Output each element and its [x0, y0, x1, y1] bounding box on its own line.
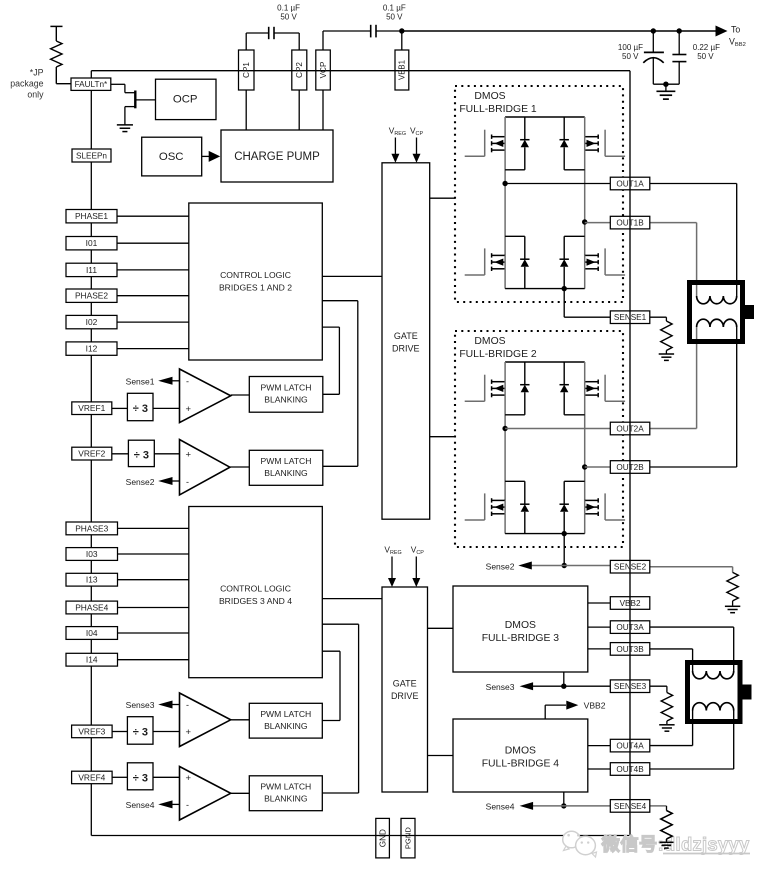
svg-text:To: To [731, 25, 740, 35]
svg-text:FULL-BRIDGE 2: FULL-BRIDGE 2 [459, 349, 537, 360]
svg-text:VREF2: VREF2 [78, 449, 105, 459]
svg-text:I01: I01 [86, 238, 98, 248]
svg-text:BLANKING: BLANKING [264, 794, 308, 804]
svg-text:PHASE1: PHASE1 [75, 211, 108, 221]
svg-text:OCP: OCP [173, 93, 198, 105]
svg-text:OUT2B: OUT2B [616, 463, 644, 472]
svg-text:FULL-BRIDGE 1: FULL-BRIDGE 1 [459, 104, 537, 115]
svg-text:微信号:dldzjsyyy: 微信号:dldzjsyyy [601, 833, 750, 854]
svg-text:-: - [186, 700, 189, 710]
svg-text:BRIDGES 1 AND 2: BRIDGES 1 AND 2 [219, 283, 292, 293]
svg-text:CONTROL LOGIC: CONTROL LOGIC [220, 584, 291, 594]
svg-text:÷ 3: ÷ 3 [133, 772, 148, 784]
svg-text:PWM LATCH: PWM LATCH [261, 456, 312, 466]
svg-text:I02: I02 [86, 317, 98, 327]
svg-text:VREF4: VREF4 [78, 772, 105, 782]
svg-text:0.1 µF: 0.1 µF [277, 4, 300, 13]
svg-text:GND: GND [378, 829, 387, 847]
svg-text:Sense3: Sense3 [486, 682, 515, 692]
svg-text:÷ 3: ÷ 3 [133, 726, 148, 738]
svg-text:VREF3: VREF3 [78, 726, 105, 736]
svg-text:OUT1B: OUT1B [616, 218, 644, 227]
svg-text:VBB1: VBB1 [398, 60, 407, 80]
svg-text:VBB2: VBB2 [620, 599, 641, 608]
svg-text:DMOS: DMOS [505, 620, 536, 631]
svg-text:*JP: *JP [30, 67, 44, 77]
svg-text:OUT1A: OUT1A [616, 179, 644, 188]
svg-text:OUT3B: OUT3B [616, 645, 644, 654]
svg-text:PHASE3: PHASE3 [75, 523, 108, 533]
svg-text:BLANKING: BLANKING [264, 468, 308, 478]
svg-text:PGND: PGND [404, 827, 413, 849]
svg-text:SENSE1: SENSE1 [614, 313, 647, 322]
svg-text:CHARGE PUMP: CHARGE PUMP [234, 151, 320, 163]
svg-text:÷ 3: ÷ 3 [134, 450, 149, 462]
svg-text:FULL-BRIDGE 4: FULL-BRIDGE 4 [482, 758, 560, 769]
svg-text:Sense2: Sense2 [486, 562, 515, 572]
svg-text:FAULTn*: FAULTn* [75, 80, 108, 89]
svg-text:OUT4A: OUT4A [616, 741, 644, 750]
svg-text:OUT2A: OUT2A [616, 424, 644, 433]
svg-text:I14: I14 [86, 655, 98, 665]
svg-text:+: + [186, 404, 192, 415]
svg-text:OSC: OSC [159, 151, 184, 163]
svg-text:Sense3: Sense3 [126, 700, 155, 710]
svg-text:100 µF: 100 µF [618, 43, 643, 52]
svg-text:OUT3A: OUT3A [616, 623, 644, 632]
svg-text:0.1 µF: 0.1 µF [383, 4, 406, 13]
svg-text:÷ 3: ÷ 3 [133, 403, 148, 415]
svg-text:-: - [186, 477, 189, 487]
svg-text:VBB2: VBB2 [584, 701, 606, 711]
svg-text:PHASE2: PHASE2 [75, 291, 108, 301]
svg-text:50 V: 50 V [697, 52, 714, 61]
svg-text:0.22 µF: 0.22 µF [693, 43, 720, 52]
svg-text:SLEEPn: SLEEPn [76, 151, 107, 160]
svg-text:FULL-BRIDGE 3: FULL-BRIDGE 3 [482, 633, 560, 644]
svg-text:Sense2: Sense2 [126, 477, 155, 487]
svg-text:50 V: 50 V [280, 13, 297, 22]
svg-text:I04: I04 [86, 628, 98, 638]
svg-text:DMOS: DMOS [505, 746, 536, 757]
svg-text:SENSE2: SENSE2 [614, 563, 647, 572]
svg-text:I13: I13 [86, 575, 98, 585]
svg-text:only: only [27, 90, 44, 100]
svg-text:DMOS: DMOS [474, 336, 505, 347]
svg-text:50 V: 50 V [386, 13, 403, 22]
svg-text:DRIVE: DRIVE [392, 343, 420, 353]
svg-text:package: package [10, 79, 43, 89]
svg-text:+: + [186, 773, 192, 784]
svg-text:PWM LATCH: PWM LATCH [261, 383, 312, 393]
svg-text:Sense4: Sense4 [486, 802, 515, 812]
svg-text:GATE: GATE [393, 678, 417, 688]
svg-text:BLANKING: BLANKING [264, 721, 308, 731]
svg-text:GATE: GATE [394, 331, 418, 341]
svg-text:-: - [186, 376, 189, 386]
svg-text:I03: I03 [86, 549, 98, 559]
svg-text:OUT4B: OUT4B [616, 765, 644, 774]
svg-text:BLANKING: BLANKING [264, 395, 308, 405]
svg-text:+: + [186, 449, 192, 460]
svg-text:50 V: 50 V [622, 52, 639, 61]
svg-text:PWM LATCH: PWM LATCH [260, 709, 311, 719]
svg-text:CONTROL LOGIC: CONTROL LOGIC [220, 270, 291, 280]
svg-text:SENSE4: SENSE4 [614, 802, 647, 811]
svg-text:Sense4: Sense4 [126, 800, 155, 810]
svg-text:SENSE3: SENSE3 [614, 682, 647, 691]
svg-text:VREF1: VREF1 [78, 403, 105, 413]
svg-text:CP1: CP1 [242, 62, 251, 78]
svg-text:I11: I11 [86, 265, 97, 275]
svg-text:Sense1: Sense1 [126, 376, 155, 386]
svg-text:DRIVE: DRIVE [391, 691, 419, 701]
svg-text:BRIDGES 3 AND 4: BRIDGES 3 AND 4 [219, 596, 292, 606]
svg-text:+: + [186, 727, 192, 738]
svg-text:PWM LATCH: PWM LATCH [260, 782, 311, 792]
svg-text:VCP: VCP [319, 61, 328, 78]
svg-text:PHASE4: PHASE4 [75, 602, 108, 612]
svg-text:I12: I12 [86, 344, 98, 354]
svg-text:DMOS: DMOS [474, 91, 505, 102]
svg-text:CP2: CP2 [295, 62, 304, 78]
svg-text:-: - [186, 800, 189, 810]
